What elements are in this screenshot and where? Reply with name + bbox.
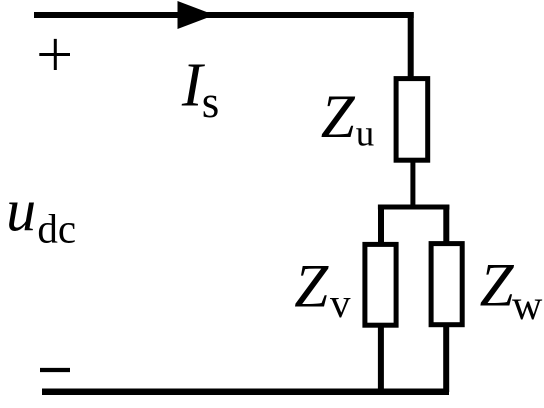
wire: left branch vertical down to Zv <box>378 205 384 243</box>
plus terminal symbol <box>39 39 70 70</box>
impedance Zv (rectangle body) <box>365 244 396 325</box>
svg-text:dc: dc <box>37 205 76 251</box>
svg-text:s: s <box>202 77 220 127</box>
wire: vertical from Zu bottom to parallel-branch top bar <box>410 160 415 208</box>
svg-text:u: u <box>356 114 375 155</box>
wire: right branch vertical down to Zw <box>443 205 449 242</box>
wire: bottom horizontal return rail <box>42 389 449 396</box>
wire: left branch vertical from Zv bottom to bottom rail <box>378 325 384 392</box>
svg-text:w: w <box>512 283 543 329</box>
wire: horizontal top bar of parallel branches <box>378 205 450 210</box>
svg-text:Z: Z <box>294 254 329 321</box>
svg-text:v: v <box>330 280 351 326</box>
impedance Zu (rectangle body) <box>396 79 428 161</box>
wire: top horizontal from + terminal to top-right corner <box>34 12 414 18</box>
svg-text:Z: Z <box>480 253 515 320</box>
svg-text:u: u <box>6 178 36 244</box>
wire: vertical drop from top-right corner to Zu <box>408 12 414 78</box>
wire: right branch vertical from Zw bottom to bottom rail <box>443 325 449 392</box>
minus terminal symbol <box>40 368 70 372</box>
impedance Zw (rectangle body) <box>431 244 462 325</box>
arrowhead for current Is on top wire <box>178 1 215 29</box>
svg-text:Z: Z <box>321 84 356 151</box>
